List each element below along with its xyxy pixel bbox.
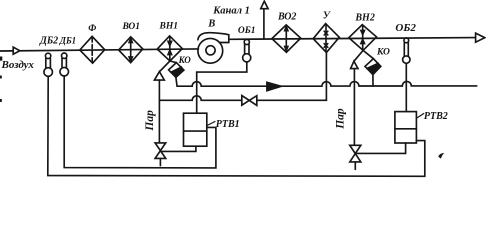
sensor OB2 [403,38,410,63]
outlet flow arrow [476,33,485,42]
edge speck 3 [0,99,2,102]
wire main air line right [229,38,476,40]
wire main air line left [0,49,199,51]
node label Пар left [144,110,156,132]
edge speck 2 [0,76,2,79]
cooler VO2 diamond [272,25,301,52]
wire riser to channel 1 [263,9,265,39]
svg-text:ВО1: ВО1 [122,22,141,32]
wire valve2 to RTV2 bottom [357,143,406,153]
svg-text:КО: КО [178,55,192,65]
svg-text:ОБ2: ОБ2 [395,22,416,34]
check valve KO1 [169,63,184,86]
edge speck 1 [0,57,2,61]
svg-text:Ф: Ф [88,24,96,34]
wire VN2 drop diagonals [354,50,373,61]
channel 1 flow arrow [261,1,268,9]
svg-text:У: У [323,10,331,21]
relief triangle under VN2 [351,61,358,68]
wire outer bus DB2 to RTV2 [48,76,425,176]
node label ДБ1 [59,36,76,46]
flow arrow on line A [267,82,281,91]
inlet flow arrow [13,47,20,54]
regulator RTV1 [184,113,207,146]
heater VN1 diamond [157,36,182,61]
svg-text:В: В [207,18,215,29]
wire recirculation line A with hops [177,81,477,86]
wire inner bus DB1 to RTV1 [64,76,216,168]
node label ОБ2 [395,22,416,34]
svg-text:Воздух: Воздух [1,59,35,71]
humidifier U diamond [313,24,339,53]
node label Канал 1 [212,6,250,17]
check valve KO2 [365,59,381,86]
node label ВО2 [277,12,296,23]
node label Пар right [335,108,347,130]
sensor OB1 [243,39,251,62]
node label ВН2 [354,13,374,24]
svg-text:КО: КО [376,47,390,57]
svg-text:Пар: Пар [144,110,156,132]
steam valve 1 (vertical globe) [155,143,166,166]
wire valve1 to RTV1 bottom [162,146,196,151]
node air inlet label Воздух [1,59,35,71]
relief triangle under VN1 [154,72,164,81]
svg-text:Пар: Пар [335,108,347,130]
filter F diamond [80,36,105,63]
svg-text:РТВ2: РТВ2 [424,111,448,122]
node label РТВ2 with leader [416,114,423,119]
wire steam line 1 vertical [158,80,160,143]
cooler VO1 diamond [119,37,143,63]
node label У [323,10,331,21]
svg-text:Канал 1: Канал 1 [212,6,250,17]
node label Ф [88,24,96,34]
svg-text:ДБ1: ДБ1 [59,36,76,46]
sensor DB2 [44,53,53,76]
node label ВО1 [122,22,141,32]
svg-text:ВН1: ВН1 [159,22,178,32]
svg-text:ВО2: ВО2 [277,12,296,23]
svg-text:РТВ1: РТВ1 [216,119,240,130]
steam valve (horizontal globe) [242,96,257,106]
wire steam line B to humidifier [257,53,327,101]
svg-text:ОБ1: ОБ1 [238,26,256,36]
wire OB1 control line to RTV1 [197,62,247,113]
svg-text:ВН2: ВН2 [354,13,374,24]
node label В [207,18,215,29]
wire steam line 2 vertical [353,69,355,146]
node label ДБ2 [39,35,58,46]
steam valve 2 (vertical globe) [350,145,361,169]
node label ОБ1 [238,26,256,36]
fan V (centrifugal blower) [198,33,229,64]
heater VN2 diamond [349,25,377,51]
wire OB2 control line to RTV2 [405,63,407,111]
node label ВН1 [159,22,178,32]
wire steam line B with hop [159,96,241,101]
svg-text:ДБ2: ДБ2 [39,35,58,46]
sensor DB1 [60,53,69,76]
wire VN1 drop diagonals [160,61,177,72]
ink speck mark [438,153,444,158]
node label РТВ1 with leader [207,122,215,126]
regulator RTV2 [395,112,417,143]
node label КО [178,55,192,65]
node label КО (right) [376,47,390,57]
